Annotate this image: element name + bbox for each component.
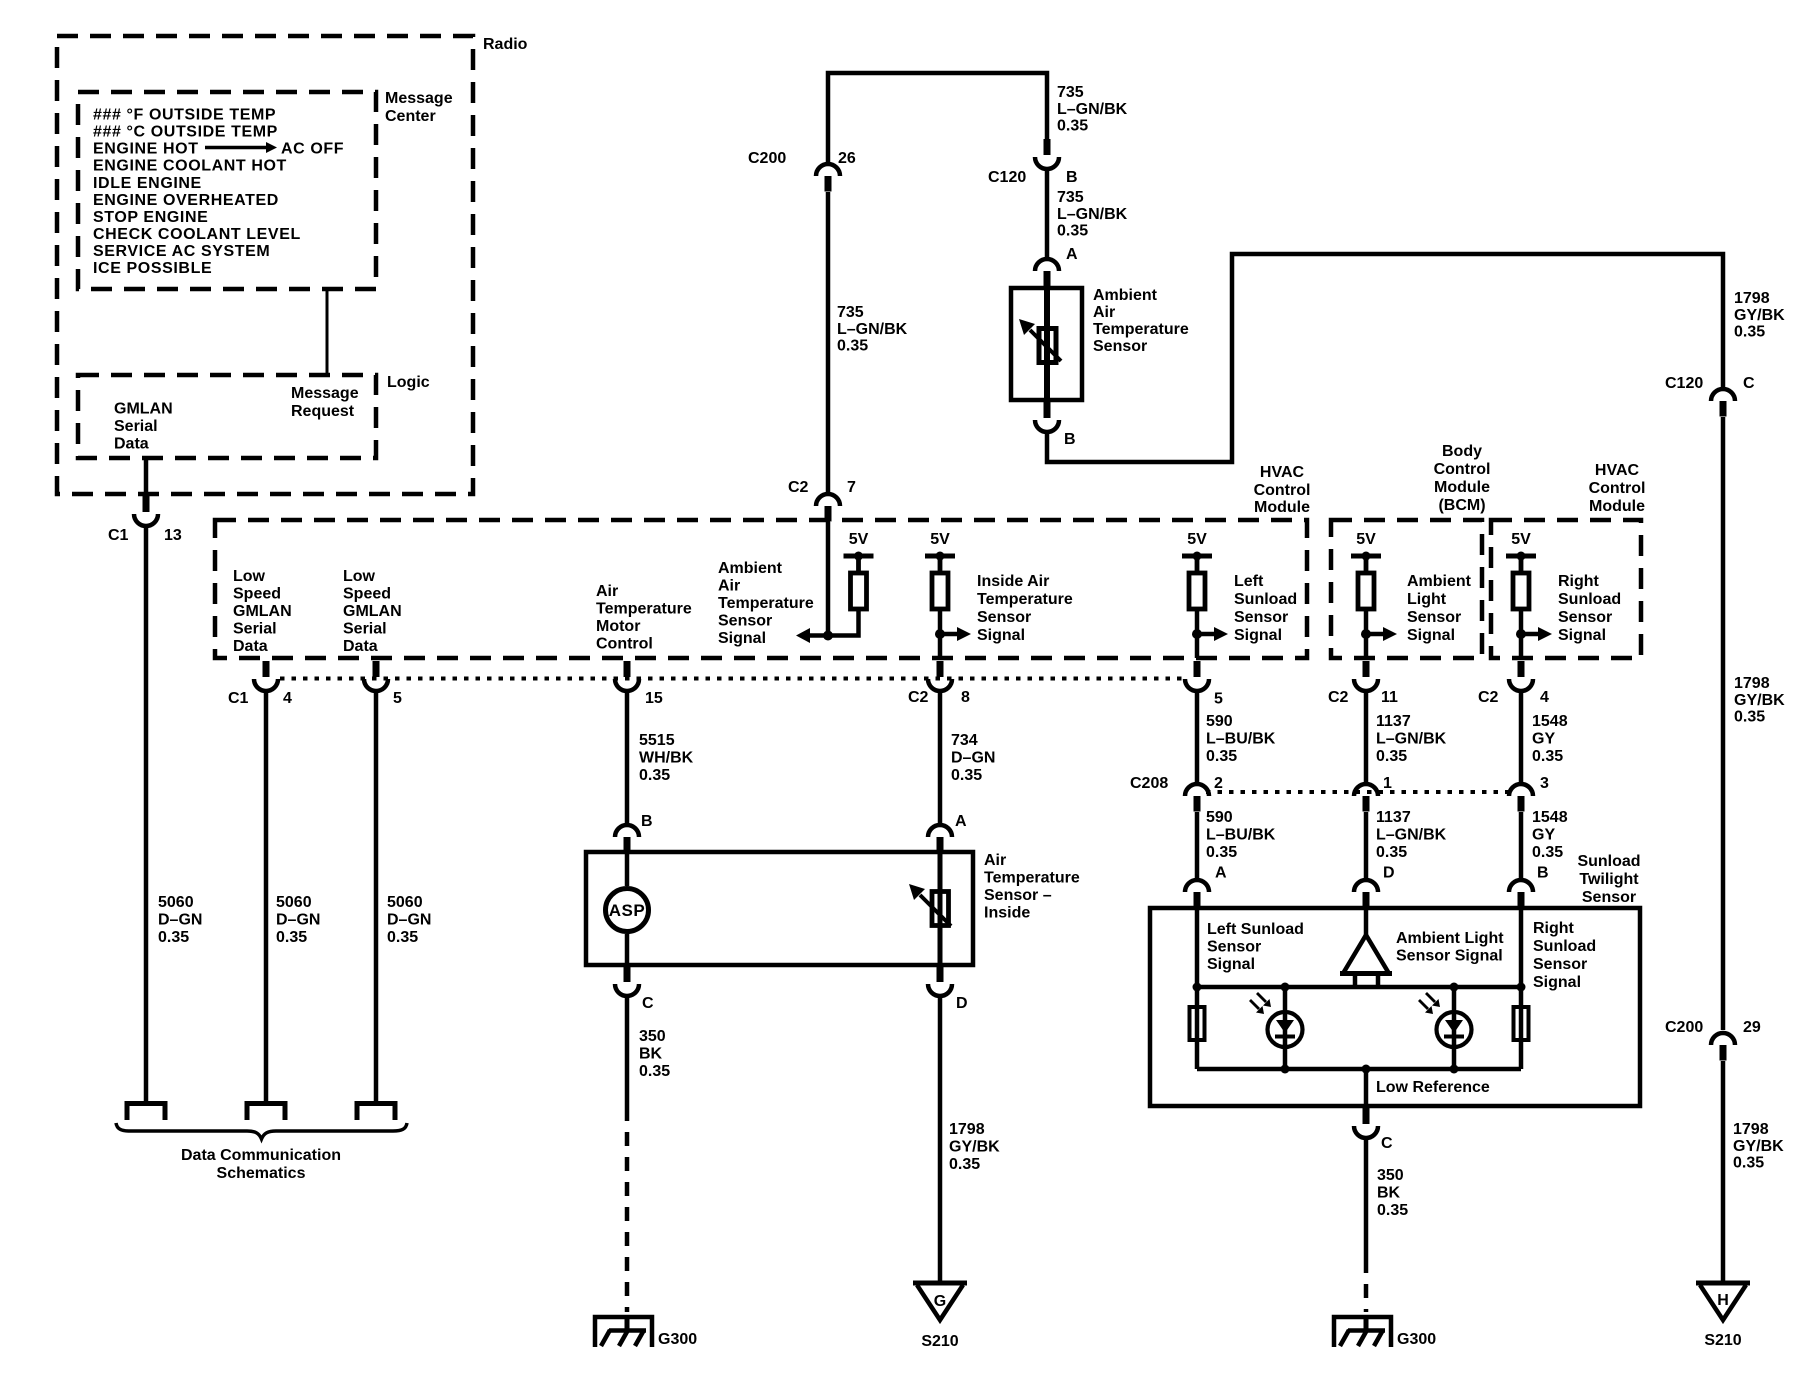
svg-text:Low Reference: Low Reference — [1376, 1079, 1490, 1096]
svg-text:Sensor: Sensor — [1234, 609, 1288, 626]
svg-text:5: 5 — [1214, 691, 1223, 708]
svg-text:Sunload: Sunload — [1234, 591, 1297, 608]
svg-text:1798: 1798 — [1734, 675, 1770, 692]
svg-text:G300: G300 — [658, 1331, 697, 1348]
svg-text:0.35: 0.35 — [639, 767, 670, 784]
svg-text:5V: 5V — [1356, 531, 1376, 548]
svg-text:D–GN: D–GN — [387, 912, 431, 929]
svg-text:L–GN/BK: L–GN/BK — [1057, 206, 1128, 223]
svg-text:HVAC: HVAC — [1260, 464, 1305, 481]
svg-text:0.35: 0.35 — [1376, 844, 1407, 861]
svg-text:Sensor: Sensor — [1093, 338, 1147, 355]
svg-text:Radio: Radio — [483, 36, 528, 53]
svg-text:A: A — [1066, 246, 1078, 263]
svg-text:Module: Module — [1589, 498, 1645, 515]
svg-text:C2: C2 — [1478, 689, 1499, 706]
svg-text:1798: 1798 — [1733, 1121, 1769, 1138]
svg-text:D: D — [956, 995, 968, 1012]
svg-text:C200: C200 — [748, 150, 786, 167]
svg-text:5: 5 — [393, 690, 402, 707]
svg-text:Control: Control — [1254, 482, 1311, 499]
svg-text:0.35: 0.35 — [1532, 844, 1563, 861]
svg-text:ICE POSSIBLE: ICE POSSIBLE — [93, 260, 212, 277]
svg-text:735: 735 — [837, 304, 864, 321]
svg-text:Sensor: Sensor — [1582, 889, 1636, 906]
svg-text:Sunload: Sunload — [1577, 853, 1640, 870]
svg-text:D–GN: D–GN — [276, 912, 320, 929]
svg-text:BK: BK — [1377, 1185, 1401, 1202]
svg-text:Motor: Motor — [596, 618, 640, 635]
svg-text:1137: 1137 — [1376, 713, 1411, 730]
svg-text:0.35: 0.35 — [1057, 118, 1088, 135]
svg-text:C2: C2 — [788, 479, 809, 496]
svg-text:B: B — [1537, 865, 1549, 882]
svg-text:Temperature: Temperature — [977, 591, 1073, 608]
svg-text:Ambient: Ambient — [718, 560, 783, 577]
svg-text:IDLE ENGINE: IDLE ENGINE — [93, 175, 202, 192]
svg-text:B: B — [641, 813, 653, 830]
svg-text:### °F OUTSIDE TEMP: ### °F OUTSIDE TEMP — [93, 107, 276, 124]
svg-text:5060: 5060 — [387, 894, 423, 911]
svg-text:C: C — [642, 995, 654, 1012]
svg-text:Right: Right — [1558, 573, 1600, 590]
svg-text:GY: GY — [1532, 731, 1555, 748]
svg-text:Speed: Speed — [233, 586, 281, 603]
svg-text:Air: Air — [1093, 304, 1115, 321]
svg-text:Low: Low — [233, 568, 266, 585]
svg-text:0.35: 0.35 — [1734, 324, 1765, 341]
svg-text:5V: 5V — [1511, 531, 1531, 548]
svg-text:S210: S210 — [1704, 1332, 1741, 1349]
svg-text:Signal: Signal — [1234, 627, 1282, 644]
svg-text:3: 3 — [1540, 775, 1549, 792]
svg-text:C120: C120 — [1665, 375, 1703, 392]
svg-text:Signal: Signal — [718, 630, 766, 647]
svg-text:Temperature: Temperature — [984, 870, 1080, 887]
svg-text:Ambient: Ambient — [1093, 287, 1158, 304]
svg-text:590: 590 — [1206, 713, 1233, 730]
svg-text:0.35: 0.35 — [951, 767, 982, 784]
svg-text:Signal: Signal — [1407, 627, 1455, 644]
svg-text:0.35: 0.35 — [639, 1063, 670, 1080]
svg-text:BK: BK — [639, 1046, 663, 1063]
svg-text:G: G — [934, 1293, 946, 1310]
svg-text:5515: 5515 — [639, 732, 675, 749]
svg-text:1: 1 — [1383, 775, 1392, 792]
svg-text:C2: C2 — [1328, 689, 1349, 706]
svg-text:5V: 5V — [1187, 531, 1207, 548]
svg-text:590: 590 — [1206, 809, 1233, 826]
svg-text:H: H — [1717, 1292, 1729, 1309]
svg-text:7: 7 — [847, 479, 856, 496]
svg-text:Data: Data — [233, 638, 268, 655]
svg-text:4: 4 — [1540, 689, 1549, 706]
svg-text:Message: Message — [385, 90, 453, 107]
svg-text:Body: Body — [1442, 443, 1482, 460]
svg-text:L–GN/BK: L–GN/BK — [1057, 101, 1128, 118]
svg-text:Request: Request — [291, 403, 355, 420]
svg-text:Signal: Signal — [977, 627, 1025, 644]
svg-text:5060: 5060 — [276, 894, 312, 911]
svg-text:Data Communication: Data Communication — [181, 1147, 341, 1164]
svg-text:WH/BK: WH/BK — [639, 750, 694, 767]
svg-text:Logic: Logic — [387, 374, 430, 391]
svg-text:L–GN/BK: L–GN/BK — [1376, 827, 1447, 844]
svg-text:Sensor: Sensor — [1207, 939, 1261, 956]
svg-text:A: A — [1215, 865, 1227, 882]
svg-text:Data: Data — [343, 638, 378, 655]
svg-text:GY/BK: GY/BK — [949, 1139, 1000, 1156]
svg-text:5V: 5V — [849, 531, 869, 548]
svg-text:735: 735 — [1057, 189, 1084, 206]
svg-text:Temperature: Temperature — [1093, 321, 1189, 338]
svg-text:GMLAN: GMLAN — [233, 603, 292, 620]
svg-text:ENGINE HOT: ENGINE HOT — [93, 141, 199, 158]
svg-text:Module: Module — [1434, 479, 1490, 496]
svg-text:L–BU/BK: L–BU/BK — [1206, 731, 1276, 748]
svg-text:Control: Control — [1589, 480, 1646, 497]
svg-text:735: 735 — [1057, 84, 1084, 101]
svg-text:0.35: 0.35 — [158, 929, 189, 946]
svg-text:0.35: 0.35 — [1206, 748, 1237, 765]
svg-text:5V: 5V — [930, 531, 950, 548]
svg-text:1798: 1798 — [1734, 290, 1770, 307]
svg-text:HVAC: HVAC — [1595, 462, 1640, 479]
svg-text:L–BU/BK: L–BU/BK — [1206, 827, 1276, 844]
svg-text:8: 8 — [961, 689, 970, 706]
svg-text:C: C — [1743, 375, 1755, 392]
svg-text:Right: Right — [1533, 920, 1575, 937]
svg-text:ENGINE COOLANT HOT: ENGINE COOLANT HOT — [93, 158, 287, 175]
svg-text:Sunload: Sunload — [1558, 591, 1621, 608]
svg-text:5060: 5060 — [158, 894, 194, 911]
svg-text:Temperature: Temperature — [718, 595, 814, 612]
svg-text:0.35: 0.35 — [837, 338, 868, 355]
svg-text:C1: C1 — [228, 690, 249, 707]
svg-text:L–GN/BK: L–GN/BK — [1376, 731, 1447, 748]
svg-text:STOP ENGINE: STOP ENGINE — [93, 209, 208, 226]
svg-text:D–GN: D–GN — [951, 750, 995, 767]
svg-text:GY/BK: GY/BK — [1733, 1138, 1784, 1155]
svg-text:Twilight: Twilight — [1579, 871, 1639, 888]
svg-text:13: 13 — [164, 527, 182, 544]
svg-text:Low: Low — [343, 568, 376, 585]
svg-text:Sensor: Sensor — [977, 609, 1031, 626]
svg-text:D–GN: D–GN — [158, 912, 202, 929]
svg-text:Serial: Serial — [114, 418, 158, 435]
svg-text:0.35: 0.35 — [387, 929, 418, 946]
svg-text:(BCM): (BCM) — [1438, 497, 1485, 514]
svg-text:GY: GY — [1532, 827, 1555, 844]
svg-text:Module: Module — [1254, 499, 1310, 516]
svg-text:Left Sunload: Left Sunload — [1207, 921, 1304, 938]
svg-text:Message: Message — [291, 385, 359, 402]
svg-text:15: 15 — [645, 690, 663, 707]
svg-text:1137: 1137 — [1376, 809, 1411, 826]
svg-text:ASP: ASP — [609, 901, 645, 920]
svg-text:Control: Control — [1434, 461, 1491, 478]
svg-text:C208: C208 — [1130, 775, 1168, 792]
svg-text:Sunload: Sunload — [1533, 938, 1596, 955]
svg-text:### °C OUTSIDE TEMP: ### °C OUTSIDE TEMP — [93, 124, 278, 141]
svg-text:GY/BK: GY/BK — [1734, 307, 1785, 324]
svg-text:Inside: Inside — [984, 905, 1030, 922]
svg-text:Data: Data — [114, 436, 149, 453]
svg-text:Serial: Serial — [233, 621, 277, 638]
svg-text:0.35: 0.35 — [1376, 748, 1407, 765]
svg-text:G300: G300 — [1397, 1331, 1436, 1348]
svg-text:0.35: 0.35 — [1057, 223, 1088, 240]
svg-text:Left: Left — [1234, 573, 1264, 590]
svg-text:1548: 1548 — [1532, 809, 1568, 826]
svg-text:L–GN/BK: L–GN/BK — [837, 321, 908, 338]
svg-text:0.35: 0.35 — [1377, 1202, 1408, 1219]
svg-text:2: 2 — [1214, 775, 1223, 792]
svg-text:1548: 1548 — [1532, 713, 1568, 730]
svg-text:B: B — [1064, 431, 1076, 448]
svg-text:C120: C120 — [988, 169, 1026, 186]
svg-text:S210: S210 — [921, 1333, 958, 1350]
svg-text:C200: C200 — [1665, 1019, 1703, 1036]
svg-text:Air: Air — [984, 852, 1006, 869]
svg-text:26: 26 — [838, 150, 856, 167]
svg-text:29: 29 — [1743, 1019, 1761, 1036]
svg-text:Sensor –: Sensor – — [984, 887, 1052, 904]
svg-text:CHECK COOLANT LEVEL: CHECK COOLANT LEVEL — [93, 226, 301, 243]
svg-text:AC OFF: AC OFF — [281, 141, 344, 158]
svg-text:D: D — [1383, 865, 1395, 882]
svg-text:B: B — [1066, 169, 1078, 186]
svg-text:350: 350 — [1377, 1167, 1404, 1184]
svg-text:Air: Air — [596, 583, 618, 600]
svg-text:Serial: Serial — [343, 621, 387, 638]
svg-text:Ambient: Ambient — [1407, 573, 1472, 590]
svg-text:4: 4 — [283, 690, 292, 707]
svg-text:Sensor: Sensor — [718, 613, 772, 630]
svg-text:Signal: Signal — [1533, 974, 1581, 991]
svg-text:Sensor: Sensor — [1407, 609, 1461, 626]
svg-text:Schematics: Schematics — [217, 1165, 306, 1182]
svg-text:Signal: Signal — [1558, 627, 1606, 644]
svg-text:0.35: 0.35 — [1733, 1155, 1764, 1172]
svg-text:Signal: Signal — [1207, 956, 1255, 973]
svg-text:Air: Air — [718, 578, 740, 595]
svg-text:A: A — [955, 813, 967, 830]
svg-text:734: 734 — [951, 732, 978, 749]
svg-text:Sensor Signal: Sensor Signal — [1396, 948, 1503, 965]
svg-text:Control: Control — [596, 636, 653, 653]
svg-text:Center: Center — [385, 108, 436, 125]
svg-text:Sensor: Sensor — [1558, 609, 1612, 626]
svg-text:Temperature: Temperature — [596, 601, 692, 618]
svg-text:350: 350 — [639, 1028, 666, 1045]
svg-text:ENGINE OVERHEATED: ENGINE OVERHEATED — [93, 192, 279, 209]
svg-text:1798: 1798 — [949, 1121, 985, 1138]
svg-text:Sensor: Sensor — [1533, 956, 1587, 973]
svg-text:Light: Light — [1407, 591, 1447, 608]
svg-text:C: C — [1381, 1135, 1393, 1152]
svg-text:0.35: 0.35 — [1206, 844, 1237, 861]
svg-text:GMLAN: GMLAN — [114, 401, 173, 418]
svg-text:C1: C1 — [108, 527, 129, 544]
svg-text:Ambient Light: Ambient Light — [1396, 930, 1504, 947]
svg-text:0.35: 0.35 — [276, 929, 307, 946]
svg-text:SERVICE AC SYSTEM: SERVICE AC SYSTEM — [93, 243, 270, 260]
svg-text:Speed: Speed — [343, 586, 391, 603]
svg-text:11: 11 — [1381, 689, 1398, 706]
svg-text:0.35: 0.35 — [1532, 748, 1563, 765]
svg-text:GMLAN: GMLAN — [343, 603, 402, 620]
svg-text:Inside Air: Inside Air — [977, 573, 1049, 590]
svg-text:0.35: 0.35 — [1734, 709, 1765, 726]
svg-text:GY/BK: GY/BK — [1734, 692, 1785, 709]
svg-text:C2: C2 — [908, 689, 929, 706]
svg-text:0.35: 0.35 — [949, 1156, 980, 1173]
